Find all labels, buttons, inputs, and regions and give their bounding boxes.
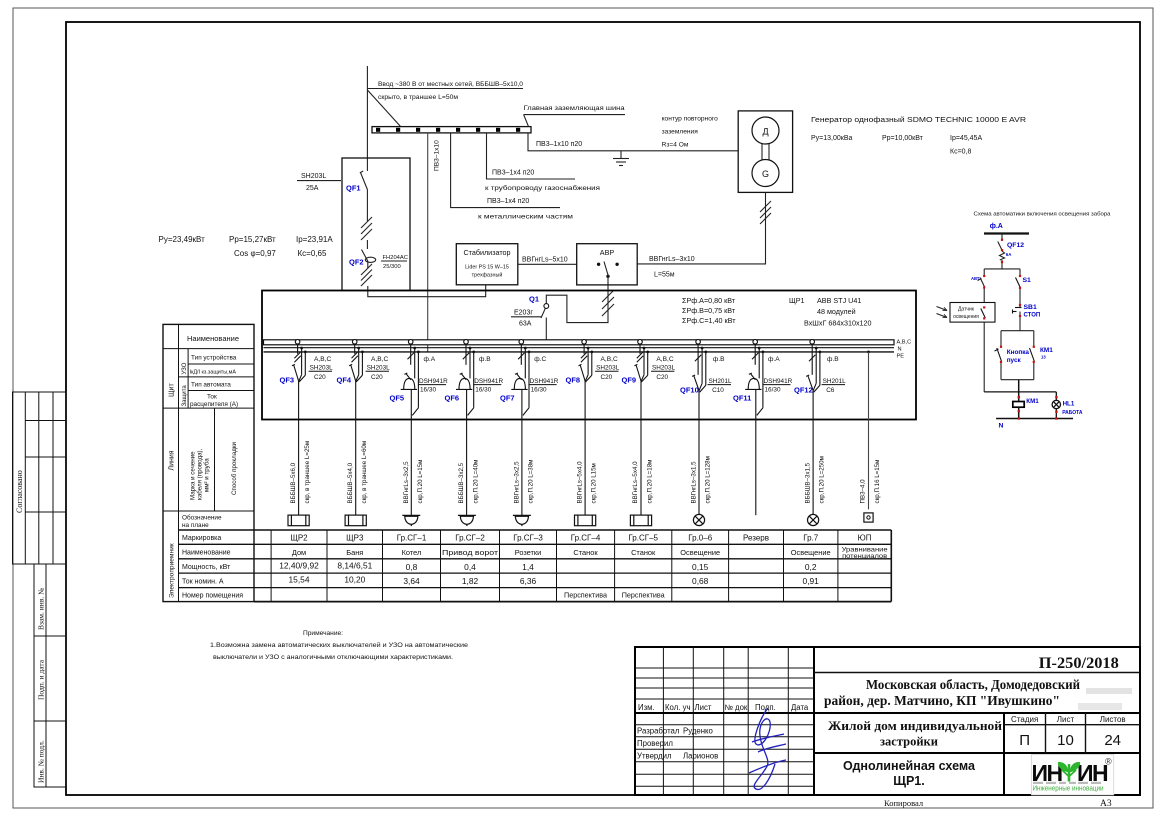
svg-text:Генератор однофазный SDMO TECH: Генератор однофазный SDMO TECHNIC 10000 … <box>811 116 1026 124</box>
svg-text:контур повторного: контур повторного <box>662 116 719 123</box>
svg-text:скр,П.20 L=15м: скр,П.20 L=15м <box>417 460 424 504</box>
svg-text:Cos φ=0,97: Cos φ=0,97 <box>234 249 276 258</box>
svg-text:SH201L: SH201L <box>709 378 733 385</box>
svg-text:63А: 63А <box>519 321 532 328</box>
svg-text:Iр=45,45А: Iр=45,45А <box>950 135 982 142</box>
svg-text:Гр.СГ–2: Гр.СГ–2 <box>455 534 485 543</box>
svg-text:Способ прокладки: Способ прокладки <box>231 441 238 495</box>
svg-text:Q1: Q1 <box>529 295 539 304</box>
blue signature <box>749 708 786 789</box>
Взам. инв. № block <box>34 564 66 636</box>
svg-text:48 модулей: 48 модулей <box>817 307 856 316</box>
svg-text:трехфазный: трехфазный <box>472 272 503 279</box>
svg-text:SH203L: SH203L <box>652 365 676 372</box>
svg-text:13: 13 <box>1041 355 1046 360</box>
svg-text:Розетки: Розетки <box>515 548 542 557</box>
svg-text:С20: С20 <box>601 374 613 381</box>
stabilizer box <box>456 244 518 285</box>
svg-text:QF10: QF10 <box>680 386 699 395</box>
diff breaker QF11 (Резерв) <box>745 340 764 516</box>
svg-text:расцепителя (А): расцепителя (А) <box>190 401 238 408</box>
svg-text:0,4: 0,4 <box>464 562 476 572</box>
svg-text:Проверил: Проверил <box>637 739 673 748</box>
faint watermark remnants <box>1086 688 1132 694</box>
diff breaker QF7 (Гр.СГ-3) <box>511 340 530 516</box>
svg-text:Iр=23,91А: Iр=23,91А <box>296 235 333 244</box>
svg-text:Жилой дом индивидуальной: Жилой дом индивидуальной <box>828 719 1002 733</box>
appliance symbol Привод ворот <box>458 515 476 526</box>
svg-text:скр,П.20 L=128м: скр,П.20 L=128м <box>704 456 711 503</box>
КУП symbol <box>864 513 873 522</box>
bus N <box>264 347 895 349</box>
breaker QF8 (Гр.СГ-4) <box>579 340 594 516</box>
svg-text:L=55м: L=55м <box>654 272 675 279</box>
svg-text:ЩР1: ЩР1 <box>789 296 805 305</box>
switch contacts <box>597 263 600 266</box>
svg-text:скрыто, в траншее L=50м: скрыто, в траншее L=50м <box>378 94 458 101</box>
svg-text:Согласовано: Согласовано <box>15 470 24 513</box>
svg-text:ВББШВ–5х6,0: ВББШВ–5х6,0 <box>290 462 297 503</box>
svg-text:12,40/9,92: 12,40/9,92 <box>279 561 319 571</box>
svg-text:ВВГнгLs–3х2,5: ВВГнгLs–3х2,5 <box>514 461 521 504</box>
svg-text:ПВ3–1х10: ПВ3–1х10 <box>434 140 441 171</box>
svg-text:Станок: Станок <box>573 548 598 557</box>
svg-text:ВВГнгLs–5х4,0: ВВГнгLs–5х4,0 <box>632 461 639 504</box>
svg-text:ВВГнгLs–3х1,5: ВВГнгLs–3х1,5 <box>690 461 697 504</box>
svg-text:Lider PS 15 W–15: Lider PS 15 W–15 <box>465 265 509 271</box>
svg-text:ЩР1.: ЩР1. <box>893 774 925 788</box>
svg-text:Наименование: Наименование <box>182 550 231 557</box>
svg-text:8,14/6,51: 8,14/6,51 <box>337 561 372 571</box>
svg-text:6,36: 6,36 <box>520 576 537 586</box>
svg-text:N: N <box>898 347 902 353</box>
svg-text:Дата: Дата <box>791 703 809 712</box>
svg-text:Листов: Листов <box>1100 715 1126 724</box>
diff breaker QF6 (Гр.СГ-2) <box>456 340 475 516</box>
svg-text:П: П <box>1019 732 1030 749</box>
svg-text:QF1: QF1 <box>346 184 361 193</box>
наименование row <box>292 547 888 561</box>
svg-text:КМ1: КМ1 <box>1026 398 1039 405</box>
svg-text:Примечание:: Примечание: <box>303 630 343 637</box>
svg-text:скр,П.16 L=15м: скр,П.16 L=15м <box>874 460 881 504</box>
left branch wire <box>983 269 985 277</box>
wire <box>1001 234 1003 242</box>
breaker QF1 SH203L 25A <box>360 171 368 221</box>
lamp symbol Гр.0-6 <box>693 514 704 525</box>
svg-text:Гр.7: Гр.7 <box>803 534 819 543</box>
contactor coil КМ1 <box>1018 392 1020 402</box>
svg-text:С20: С20 <box>656 374 668 381</box>
svg-text:ф.С: ф.С <box>534 356 546 363</box>
svg-text:Руденко: Руденко <box>683 727 714 736</box>
svg-text:1,82: 1,82 <box>462 576 479 586</box>
svg-text:Ток номин. А: Ток номин. А <box>182 579 224 586</box>
мощность row <box>279 561 817 573</box>
svg-text:Перспектива: Перспектива <box>622 591 665 600</box>
svg-text:ф.А: ф.А <box>990 223 1003 230</box>
svg-text:Гр.СГ–3: Гр.СГ–3 <box>513 534 543 543</box>
svg-text:Освещение: Освещение <box>791 548 831 557</box>
svg-text:ВхШхГ 684х310х120: ВхШхГ 684х310х120 <box>804 319 872 328</box>
shaft <box>761 144 763 160</box>
svg-text:G: G <box>762 169 769 179</box>
svg-text:QF3: QF3 <box>280 376 295 385</box>
svg-text:QF4: QF4 <box>337 376 352 385</box>
svg-text:0,8: 0,8 <box>406 562 418 572</box>
svg-text:Ввод ~380 В от местных сетей,: Ввод ~380 В от местных сетей, ВББШВ–5х10… <box>378 80 523 88</box>
svg-text:Стабилизатор: Стабилизатор <box>463 248 510 257</box>
svg-text:Котел: Котел <box>402 548 422 557</box>
svg-text:Привод ворот: Привод ворот <box>442 548 499 557</box>
wire loop to node line <box>1018 380 1020 392</box>
svg-text:ПВ3–1х4 п20: ПВ3–1х4 п20 <box>492 170 534 177</box>
board symbol Гр.СГ-5 <box>630 515 651 526</box>
phase marks on АВР output <box>602 290 614 316</box>
svg-text:УЗО: УЗО <box>182 362 188 374</box>
svg-text:Разработал: Разработал <box>637 727 680 736</box>
start button contact <box>995 348 1002 361</box>
svg-text:0,2: 0,2 <box>805 562 817 572</box>
svg-text:ЩР2: ЩР2 <box>290 534 308 543</box>
node: PEN tap to ГЗШ (diagonal) <box>367 90 401 127</box>
indicator lamp HL1 <box>1055 392 1057 401</box>
svg-text:Линия: Линия <box>169 450 176 470</box>
svg-text:Наименование: Наименование <box>187 334 239 343</box>
blade <box>541 308 545 318</box>
svg-text:Электроприемник: Электроприемник <box>169 543 176 598</box>
engine circle Д <box>752 117 779 144</box>
svg-text:Лист: Лист <box>695 703 712 712</box>
svg-text:Кс=0,8: Кс=0,8 <box>950 149 972 156</box>
svg-text:FH204AC: FH204AC <box>383 255 408 261</box>
svg-text:А3: А3 <box>1100 799 1112 809</box>
stop button SB1 <box>1013 305 1022 314</box>
input cabinet box <box>342 158 410 291</box>
generator box <box>738 111 792 192</box>
svg-text:1.Возможна замена автоматическ: 1.Возможна замена автоматических выключа… <box>210 641 468 649</box>
svg-text:ВББШВ–3х2,5: ВББШВ–3х2,5 <box>458 462 465 503</box>
svg-text:Утвердил: Утвердил <box>637 752 672 761</box>
svg-text:SH203L: SH203L <box>310 365 334 372</box>
svg-text:А,В,С: А,В,С <box>601 356 618 363</box>
svg-text:А,В,С: А,В,С <box>371 356 388 363</box>
gray reflection <box>1033 782 1101 784</box>
маркировка row <box>290 534 871 543</box>
svg-text:Однолинейная схема: Однолинейная схема <box>843 759 976 773</box>
svg-text:Изм.: Изм. <box>638 703 655 712</box>
svg-text:Rз=4 Ом: Rз=4 Ом <box>662 142 689 149</box>
svg-text:ПВ3–1х10 п20: ПВ3–1х10 п20 <box>536 141 582 148</box>
svg-text:Стадия: Стадия <box>1011 715 1038 724</box>
svg-text:ΣРф.А=0,80 кВт: ΣРф.А=0,80 кВт <box>682 296 736 305</box>
board symbol ЩР3 <box>345 515 366 526</box>
svg-text:Освещение: Освещение <box>680 548 720 557</box>
svg-text:0,91: 0,91 <box>803 576 820 586</box>
svg-text:IкД/I кз.защиты,мА: IкД/I кз.защиты,мА <box>190 369 237 375</box>
svg-text:ВВГнгLs–3х2,5: ВВГнгLs–3х2,5 <box>403 461 410 504</box>
svg-text:Инв. № подл.: Инв. № подл. <box>37 740 46 783</box>
svg-text:ВББШВ–5х4,0: ВББШВ–5х4,0 <box>347 462 354 503</box>
svg-text:Кс=0,65: Кс=0,65 <box>298 249 327 258</box>
svg-text:0,68: 0,68 <box>692 576 709 586</box>
svg-text:16/30: 16/30 <box>475 387 491 394</box>
breaker QF9 (Гр.СГ-5) <box>634 340 649 516</box>
svg-text:Д: Д <box>762 127 768 137</box>
wire: ПВ3-1х10 PE conductor to panel <box>427 133 429 352</box>
svg-text:пуск: пуск <box>1007 357 1022 364</box>
svg-text:QF2: QF2 <box>349 258 364 267</box>
svg-text:район, дер. Матчино, КП "Ивушк: район, дер. Матчино, КП "Ивушкино" <box>824 693 1060 708</box>
busbar А,В,С <box>264 340 895 345</box>
right branch wire <box>1019 269 1021 277</box>
left grid horizontals <box>635 668 814 786</box>
wire: АВР output to Q1 <box>546 276 608 322</box>
svg-text:освещения: освещения <box>953 314 979 320</box>
light sensor box Датчик освещения <box>950 303 995 323</box>
node line <box>984 391 1056 393</box>
svg-text:Ру=13,00кВа: Ру=13,00кВа <box>811 135 853 142</box>
svg-text:Станок: Станок <box>631 548 656 557</box>
svg-text:QF11: QF11 <box>733 394 751 403</box>
svg-text:S1: S1 <box>1023 277 1032 284</box>
split bar <box>984 268 1020 270</box>
wire: ввод 380В supply drop <box>366 66 368 171</box>
АВР box <box>577 244 638 285</box>
svg-text:Московская область, Домодедовс: Московская область, Домодедовский <box>866 677 1080 692</box>
wire: generator output to АВР <box>618 192 766 264</box>
svg-text:PE: PE <box>897 354 905 360</box>
svg-text:ф.В: ф.В <box>479 356 491 363</box>
Согласовано block grid <box>13 392 67 564</box>
svg-text:QF12: QF12 <box>1007 242 1024 249</box>
svg-text:А,В,С: А,В,С <box>897 340 912 346</box>
wire: ПВ3-1х10 п20 to repeat ground loop <box>528 133 738 151</box>
svg-text:ЩР3: ЩР3 <box>346 534 364 543</box>
svg-text:10: 10 <box>1057 732 1074 749</box>
lamp symbol Гр.7 <box>808 514 819 525</box>
svg-text:16/30: 16/30 <box>531 387 547 394</box>
svg-text:С20: С20 <box>314 374 326 381</box>
svg-text:ф.А: ф.А <box>768 356 780 363</box>
svg-text:ΣРф.В=0,75 кВт: ΣРф.В=0,75 кВт <box>682 306 736 315</box>
svg-text:заземления: заземления <box>662 129 699 136</box>
svg-text:24: 24 <box>1104 732 1121 749</box>
svg-text:Взам. инв. №: Взам. инв. № <box>37 588 46 630</box>
svg-text:Номер помещения: Номер помещения <box>182 593 243 600</box>
generator circle G <box>752 160 779 187</box>
svg-text:ПВ3–1х4 п20: ПВ3–1х4 п20 <box>487 198 529 205</box>
svg-text:25А: 25А <box>306 185 319 192</box>
svg-text:А,В,С: А,В,С <box>314 356 331 363</box>
svg-text:N: N <box>999 423 1004 430</box>
wire sensor to bottom node <box>983 322 985 392</box>
svg-text:ВВГнгLs–5х10: ВВГнгLs–5х10 <box>522 257 568 264</box>
phase source bar <box>984 232 1029 234</box>
svg-text:Гр.СГ–5: Гр.СГ–5 <box>628 534 658 543</box>
RCD QF2 FH204AC 25/300 <box>362 250 376 269</box>
svg-text:№ док: № док <box>725 703 748 712</box>
left grid verticals <box>663 647 788 795</box>
svg-text:ф.А: ф.А <box>424 356 436 363</box>
ground symbol: repeat grounding electrode <box>613 151 629 166</box>
panel ЩР1 box <box>262 291 916 420</box>
svg-text:А,В,С: А,В,С <box>656 356 673 363</box>
svg-text:на плане: на плане <box>182 522 209 529</box>
hinge circle <box>544 304 549 309</box>
svg-text:1,4: 1,4 <box>522 562 534 572</box>
svg-text:Тип устройства: Тип устройства <box>191 354 237 362</box>
main grounding bus ГЗШ <box>372 127 531 133</box>
svg-text:скр,П.20 L=18м: скр,П.20 L=18м <box>646 460 653 504</box>
svg-text:Гр.СГ–1: Гр.СГ–1 <box>397 534 427 543</box>
svg-text:Защита: Защита <box>182 385 188 407</box>
appliance symbol Розетки <box>513 515 531 526</box>
phase marks below QF1 <box>361 217 372 240</box>
svg-text:QF8: QF8 <box>566 376 581 385</box>
svg-text:ф.В: ф.В <box>713 356 725 363</box>
svg-text:Гр.0–6: Гр.0–6 <box>688 534 712 543</box>
svg-text:ф.В: ф.В <box>827 356 839 363</box>
svg-text:Мощность, кВт: Мощность, кВт <box>182 564 231 571</box>
svg-text:АВТ: АВТ <box>971 276 980 281</box>
title block outer border <box>635 647 1140 795</box>
sensor contact <box>981 309 986 319</box>
svg-text:Главная заземляющая шина: Главная заземляющая шина <box>524 105 625 112</box>
svg-text:к металлическим частям: к металлическим частям <box>478 214 574 221</box>
tap: ПВ3-1х4 to gas pipe <box>487 133 576 179</box>
column lines <box>271 530 891 602</box>
svg-text:DSH941R: DSH941R <box>764 378 793 385</box>
svg-text:выключатели и УЗО с аналогичны: выключатели и УЗО с аналогичными отключа… <box>213 654 453 661</box>
svg-text:6А: 6А <box>1006 252 1012 257</box>
svg-text:ВВГнгLs–5х4,0: ВВГнгLs–5х4,0 <box>576 461 583 504</box>
svg-text:ΣРф.С=1,40 кВт: ΣРф.С=1,40 кВт <box>682 316 736 325</box>
wire to bus <box>545 318 547 342</box>
breaker QF12 (Гр.7) <box>806 340 821 516</box>
svg-text:кабеля (провода),: кабеля (провода), <box>197 448 204 500</box>
svg-text:Схема автоматики включения осв: Схема автоматики включения освещения заб… <box>974 212 1112 218</box>
svg-text:SH203L: SH203L <box>301 173 326 180</box>
svg-text:SH203L: SH203L <box>596 365 620 372</box>
manual switch S1 <box>1016 278 1021 288</box>
svg-text:П-250/2018: П-250/2018 <box>1039 655 1119 672</box>
svg-text:Кол. уч: Кол. уч <box>665 703 691 712</box>
neutral line N <box>996 418 1073 420</box>
svg-text:скр,П.20 L=250м: скр,П.20 L=250м <box>819 456 826 503</box>
svg-text:скр, в траншее L=25м: скр, в траншее L=25м <box>304 441 311 504</box>
wire: QF2 output to stabilizer <box>368 285 486 297</box>
svg-text:Лист: Лист <box>1057 715 1075 724</box>
tap: ПВ3-1х4 to metal parts <box>451 133 560 208</box>
svg-text:КМ1: КМ1 <box>1040 347 1053 354</box>
green sprout Ж <box>1058 762 1080 781</box>
svg-text:®: ® <box>1105 757 1112 767</box>
svg-text:ВББШВ–3х1,5: ВББШВ–3х1,5 <box>804 462 811 503</box>
svg-text:HL1: HL1 <box>1063 400 1075 407</box>
svg-text:скр,П.20 L=40м: скр,П.20 L=40м <box>472 460 479 504</box>
svg-text:Рр=10,00кВт: Рр=10,00кВт <box>882 135 924 142</box>
svg-text:QF6: QF6 <box>445 394 460 403</box>
svg-text:Датчик: Датчик <box>958 307 975 313</box>
stage/sheet headers <box>1011 715 1126 724</box>
svg-text:Перспектива: Перспектива <box>564 591 607 600</box>
svg-text:скр, в траншее L=60м: скр, в траншее L=60м <box>361 441 368 504</box>
svg-text:ПВ3–4,0: ПВ3–4,0 <box>860 479 867 504</box>
svg-text:15,54: 15,54 <box>289 575 310 585</box>
svg-text:SH203L: SH203L <box>367 365 391 372</box>
svg-text:ВВГнгLs–3х10: ВВГнгLs–3х10 <box>649 256 695 263</box>
red terminal dots <box>983 239 1058 420</box>
svg-text:Инженерные инновации: Инженерные инновации <box>1033 786 1104 793</box>
svg-text:16/30: 16/30 <box>420 387 436 394</box>
svg-text:Марка и сечение: Марка и сечение <box>190 451 197 500</box>
svg-text:Ток: Ток <box>207 394 217 401</box>
breaker QF12 with thermal element <box>998 242 1005 269</box>
svg-text:скр,П.20 L=38м: скр,П.20 L=38м <box>528 460 535 504</box>
junction dot on busbar <box>544 340 548 344</box>
svg-text:25/300: 25/300 <box>383 264 401 270</box>
svg-text:С10: С10 <box>712 387 724 394</box>
Инв. № подл. block <box>34 721 66 787</box>
номер помещения row <box>564 591 665 600</box>
start/hold parallel loop <box>1001 331 1034 380</box>
svg-text:Щит: Щит <box>169 383 176 397</box>
svg-text:SB1: SB1 <box>1024 304 1037 311</box>
bus PE <box>264 351 895 353</box>
wire QF1-QF2 <box>366 240 368 249</box>
svg-text:QF7: QF7 <box>500 394 515 403</box>
svg-text:Копировал: Копировал <box>884 798 924 808</box>
svg-text:0,15: 0,15 <box>692 562 709 572</box>
svg-text:Подп. и дата: Подп. и дата <box>37 659 46 700</box>
svg-text:Гр.СГ–4: Гр.СГ–4 <box>571 534 601 543</box>
right part rows <box>814 672 1140 674</box>
svg-text:DSH941R: DSH941R <box>530 378 559 385</box>
appliance symbol Котел <box>402 515 420 526</box>
svg-text:QF9: QF9 <box>622 376 637 385</box>
svg-text:SH201L: SH201L <box>823 378 847 385</box>
phase marks on generator wire <box>760 201 771 224</box>
Подп. и дата block <box>34 636 66 721</box>
board symbol Гр.СГ-4 <box>575 515 596 526</box>
breaker QF4 (ЩР3) <box>349 340 364 516</box>
svg-text:DSH941R: DSH941R <box>419 378 448 385</box>
svg-text:С6: С6 <box>826 387 835 394</box>
auto-mode contact <box>978 278 985 288</box>
wire SB1 to loop <box>1019 312 1021 331</box>
PE tap to КУП <box>867 351 870 510</box>
svg-text:QF5: QF5 <box>390 394 405 403</box>
svg-text:Ларионов: Ларионов <box>683 752 718 761</box>
light rays arrows <box>937 307 948 318</box>
svg-text:Резерв: Резерв <box>743 534 769 543</box>
svg-text:АВР: АВР <box>600 248 615 257</box>
svg-text:РАБОТА: РАБОТА <box>1062 410 1083 416</box>
svg-text:Кнопка: Кнопка <box>1007 349 1030 356</box>
table frame <box>163 324 254 601</box>
header row labels <box>637 703 809 761</box>
board symbol ЩР2 <box>288 515 309 526</box>
svg-text:QF12: QF12 <box>794 386 813 395</box>
leader line for ввод label <box>367 88 523 90</box>
svg-text:Обозначение: Обозначение <box>182 514 222 522</box>
svg-text:потенциалов: потенциалов <box>842 553 888 560</box>
ИНЖИН logo <box>1031 755 1114 796</box>
svg-text:Тип автомата: Тип автомата <box>191 382 231 389</box>
diff breaker QF5 (Гр.СГ-1) <box>401 340 420 516</box>
svg-text:Ру=23,49кВт: Ру=23,49кВт <box>159 235 206 244</box>
